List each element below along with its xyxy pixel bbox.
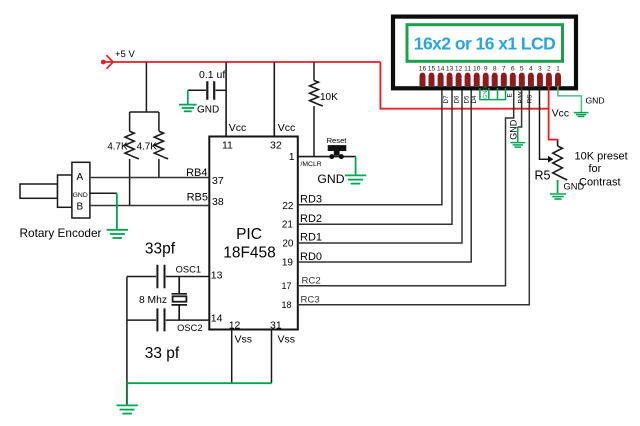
svg-text:RD2: RD2 — [300, 213, 322, 225]
svg-text:12: 12 — [229, 319, 241, 331]
svg-text:8 Mhz: 8 Mhz — [139, 295, 167, 306]
node switch contact right — [339, 154, 344, 159]
svg-text:14: 14 — [437, 66, 445, 73]
LCD module box — [393, 17, 576, 89]
svg-text:RC3: RC3 — [301, 294, 320, 305]
wire RD2 to LCD D6 — [298, 86, 452, 224]
ground (reset) — [345, 175, 366, 183]
crystal X1 8 Mhz — [172, 277, 188, 321]
wire R5 to ground — [557, 180, 559, 193]
svg-text:3: 3 — [538, 66, 542, 73]
svg-text:Vcc: Vcc — [278, 122, 296, 134]
svg-text:37: 37 — [212, 175, 224, 187]
svg-text:12: 12 — [455, 66, 463, 73]
switch Reset button — [328, 145, 347, 151]
svg-text:16x2 or 16 x1 LCD: 16x2 or 16 x1 LCD — [414, 33, 555, 53]
svg-text:Contrast: Contrast — [579, 176, 621, 188]
svg-text:GND: GND — [483, 87, 489, 99]
svg-text:22: 22 — [282, 201, 294, 212]
ground (R5) — [550, 194, 566, 199]
svg-text:19: 19 — [282, 257, 294, 268]
svg-text:32: 32 — [270, 140, 282, 152]
LCD pins (16 pads) — [420, 73, 562, 86]
svg-text:13: 13 — [211, 269, 223, 281]
+5V arrow — [106, 55, 113, 69]
wire ground bus drop — [126, 383, 128, 405]
wire +5V rail — [103, 61, 380, 63]
resistor R5 10K preset — [557, 141, 559, 146]
svg-text:14: 14 — [211, 313, 223, 325]
svg-text:15: 15 — [428, 66, 436, 73]
svg-text:18F458: 18F458 — [223, 245, 276, 262]
wire +5V to Vcc rail (LCD) — [380, 62, 548, 109]
svg-text:R5: R5 — [535, 169, 551, 183]
svg-text:Vss: Vss — [235, 333, 253, 345]
wire cap to ground — [187, 90, 189, 104]
svg-text:RS: RS — [527, 95, 534, 104]
svg-text:13: 13 — [446, 66, 454, 73]
LCD pin numbers 16..1 — [419, 66, 560, 73]
svg-text:8: 8 — [493, 66, 497, 73]
rotary encoder body — [72, 162, 90, 218]
svg-text:Reset: Reset — [327, 136, 348, 145]
capacitor 33pf (top) — [157, 265, 164, 288]
svg-text:1: 1 — [289, 151, 295, 163]
rotary encoder flange — [58, 175, 72, 207]
svg-text:RB5: RB5 — [187, 191, 208, 203]
wire OSC1 line — [127, 276, 209, 278]
wire ground bus — [127, 382, 272, 384]
capacitor 0.1 uf — [188, 89, 206, 91]
svg-text:PIC: PIC — [236, 226, 262, 243]
wire left 4.7K to RB5 line — [129, 159, 131, 206]
ground (LCD pin1) — [574, 113, 589, 117]
svg-text:Vcc: Vcc — [229, 122, 247, 134]
wire Vcc pin11 — [225, 62, 227, 137]
wire reset to ground — [355, 157, 357, 175]
svg-text:5: 5 — [520, 66, 524, 73]
ground (encoder) — [107, 230, 128, 238]
svg-text:GND: GND — [197, 105, 219, 116]
svg-text:20: 20 — [282, 238, 294, 249]
svg-text:38: 38 — [212, 196, 224, 208]
svg-text:6: 6 — [511, 66, 515, 73]
op IC U1 PIC 18F458 box — [209, 137, 297, 330]
svg-text:Vcc: Vcc — [552, 108, 569, 119]
LCD screen green frame — [407, 25, 563, 62]
wire pullup feed — [130, 62, 159, 131]
wire OSC2 line — [127, 319, 209, 321]
svg-text:RD3: RD3 — [300, 194, 322, 206]
wire Vcc pin32 — [273, 62, 275, 137]
svg-text:11: 11 — [464, 66, 471, 73]
svg-text:GND: GND — [508, 119, 518, 140]
svg-text:2: 2 — [547, 66, 551, 73]
svg-text:4.7K: 4.7K — [137, 142, 158, 153]
svg-text:GND: GND — [317, 172, 344, 186]
wire right 4.7K to RB4 line — [158, 159, 160, 178]
wire LCD Vcc pin2 — [549, 86, 558, 141]
svg-text:17: 17 — [281, 281, 291, 291]
svg-text:9: 9 — [484, 66, 488, 73]
wire LCD pin1 to ground — [558, 86, 582, 112]
GND bracket (pins 7-10) — [479, 88, 506, 100]
node switch contact left — [329, 154, 334, 159]
svg-text:A: A — [76, 172, 83, 183]
svg-text:10K preset: 10K preset — [575, 151, 628, 163]
svg-text:1: 1 — [556, 66, 560, 73]
wire RC2 to LCD E — [298, 86, 514, 286]
svg-text:for: for — [589, 163, 602, 175]
wire RD3 to LCD D7 — [298, 86, 442, 205]
wire encoder B / RB5 — [90, 205, 209, 207]
svg-text:RC2: RC2 — [302, 276, 321, 287]
svg-text:OSC2: OSC2 — [177, 323, 202, 333]
ground (main) — [116, 405, 137, 413]
wire encoder A / RB4 — [90, 177, 209, 179]
wire 10K top — [313, 62, 315, 81]
svg-text:33pf: 33pf — [145, 241, 176, 258]
svg-text:+5 V: +5 V — [115, 49, 135, 60]
ground (R/W) — [511, 143, 526, 148]
svg-text:18: 18 — [281, 300, 291, 310]
node +5V dot — [101, 60, 106, 65]
svg-text:D6: D6 — [453, 95, 460, 103]
wire contrast pin3 to wiper — [540, 86, 550, 159]
svg-text:Vss: Vss — [278, 333, 296, 345]
svg-text:10K: 10K — [320, 92, 338, 103]
resistor 10K — [310, 81, 323, 107]
ground (0.1uf) — [179, 105, 197, 112]
wire Vss pin31 — [271, 330, 273, 384]
svg-text:E: E — [507, 93, 514, 97]
svg-text:B: B — [76, 202, 83, 213]
capacitor 33 pf (bottom) — [157, 308, 164, 331]
svg-text:4.7K: 4.7K — [107, 142, 128, 153]
svg-text:RD0: RD0 — [300, 251, 322, 263]
wire RC3 to LCD RS — [298, 86, 530, 305]
svg-text:Rotary Encoder: Rotary Encoder — [20, 226, 102, 240]
wire encoder GND — [90, 192, 117, 194]
svg-text:D7: D7 — [443, 95, 450, 103]
svg-text:GND: GND — [586, 95, 605, 105]
svg-text:D4: D4 — [471, 95, 478, 103]
svg-text:4: 4 — [529, 66, 533, 73]
svg-text:0.1 uf: 0.1 uf — [199, 69, 225, 81]
svg-text:10: 10 — [473, 66, 481, 73]
svg-text:/MCLR: /MCLR — [301, 161, 322, 168]
svg-text:D5: D5 — [463, 95, 470, 103]
resistor R 4.7K (left) — [125, 131, 139, 159]
svg-text:11: 11 — [222, 140, 233, 152]
svg-text:OSC1: OSC1 — [176, 264, 201, 274]
wire 10K to /MCLR — [313, 106, 315, 157]
wire /MCLR pin1 — [298, 156, 356, 158]
resistor R 4.7K (right) — [154, 131, 168, 159]
wiper arrowhead — [548, 156, 553, 163]
svg-text:RD1: RD1 — [300, 232, 322, 244]
svg-text:GND: GND — [73, 192, 88, 199]
svg-text:RB4: RB4 — [186, 167, 207, 179]
wire RD0 to LCD D4 — [298, 86, 471, 262]
wire R/W to ground — [518, 86, 522, 127]
svg-text:16: 16 — [419, 66, 427, 73]
wire Vss pin12 — [231, 330, 233, 384]
wire RD1 to LCD D5 — [298, 86, 462, 243]
rotary encoder shaft — [20, 184, 58, 198]
wire osc left rail — [126, 277, 128, 384]
svg-text:7: 7 — [502, 66, 506, 73]
svg-text:21: 21 — [282, 220, 294, 231]
svg-text:33 pf: 33 pf — [145, 345, 180, 362]
